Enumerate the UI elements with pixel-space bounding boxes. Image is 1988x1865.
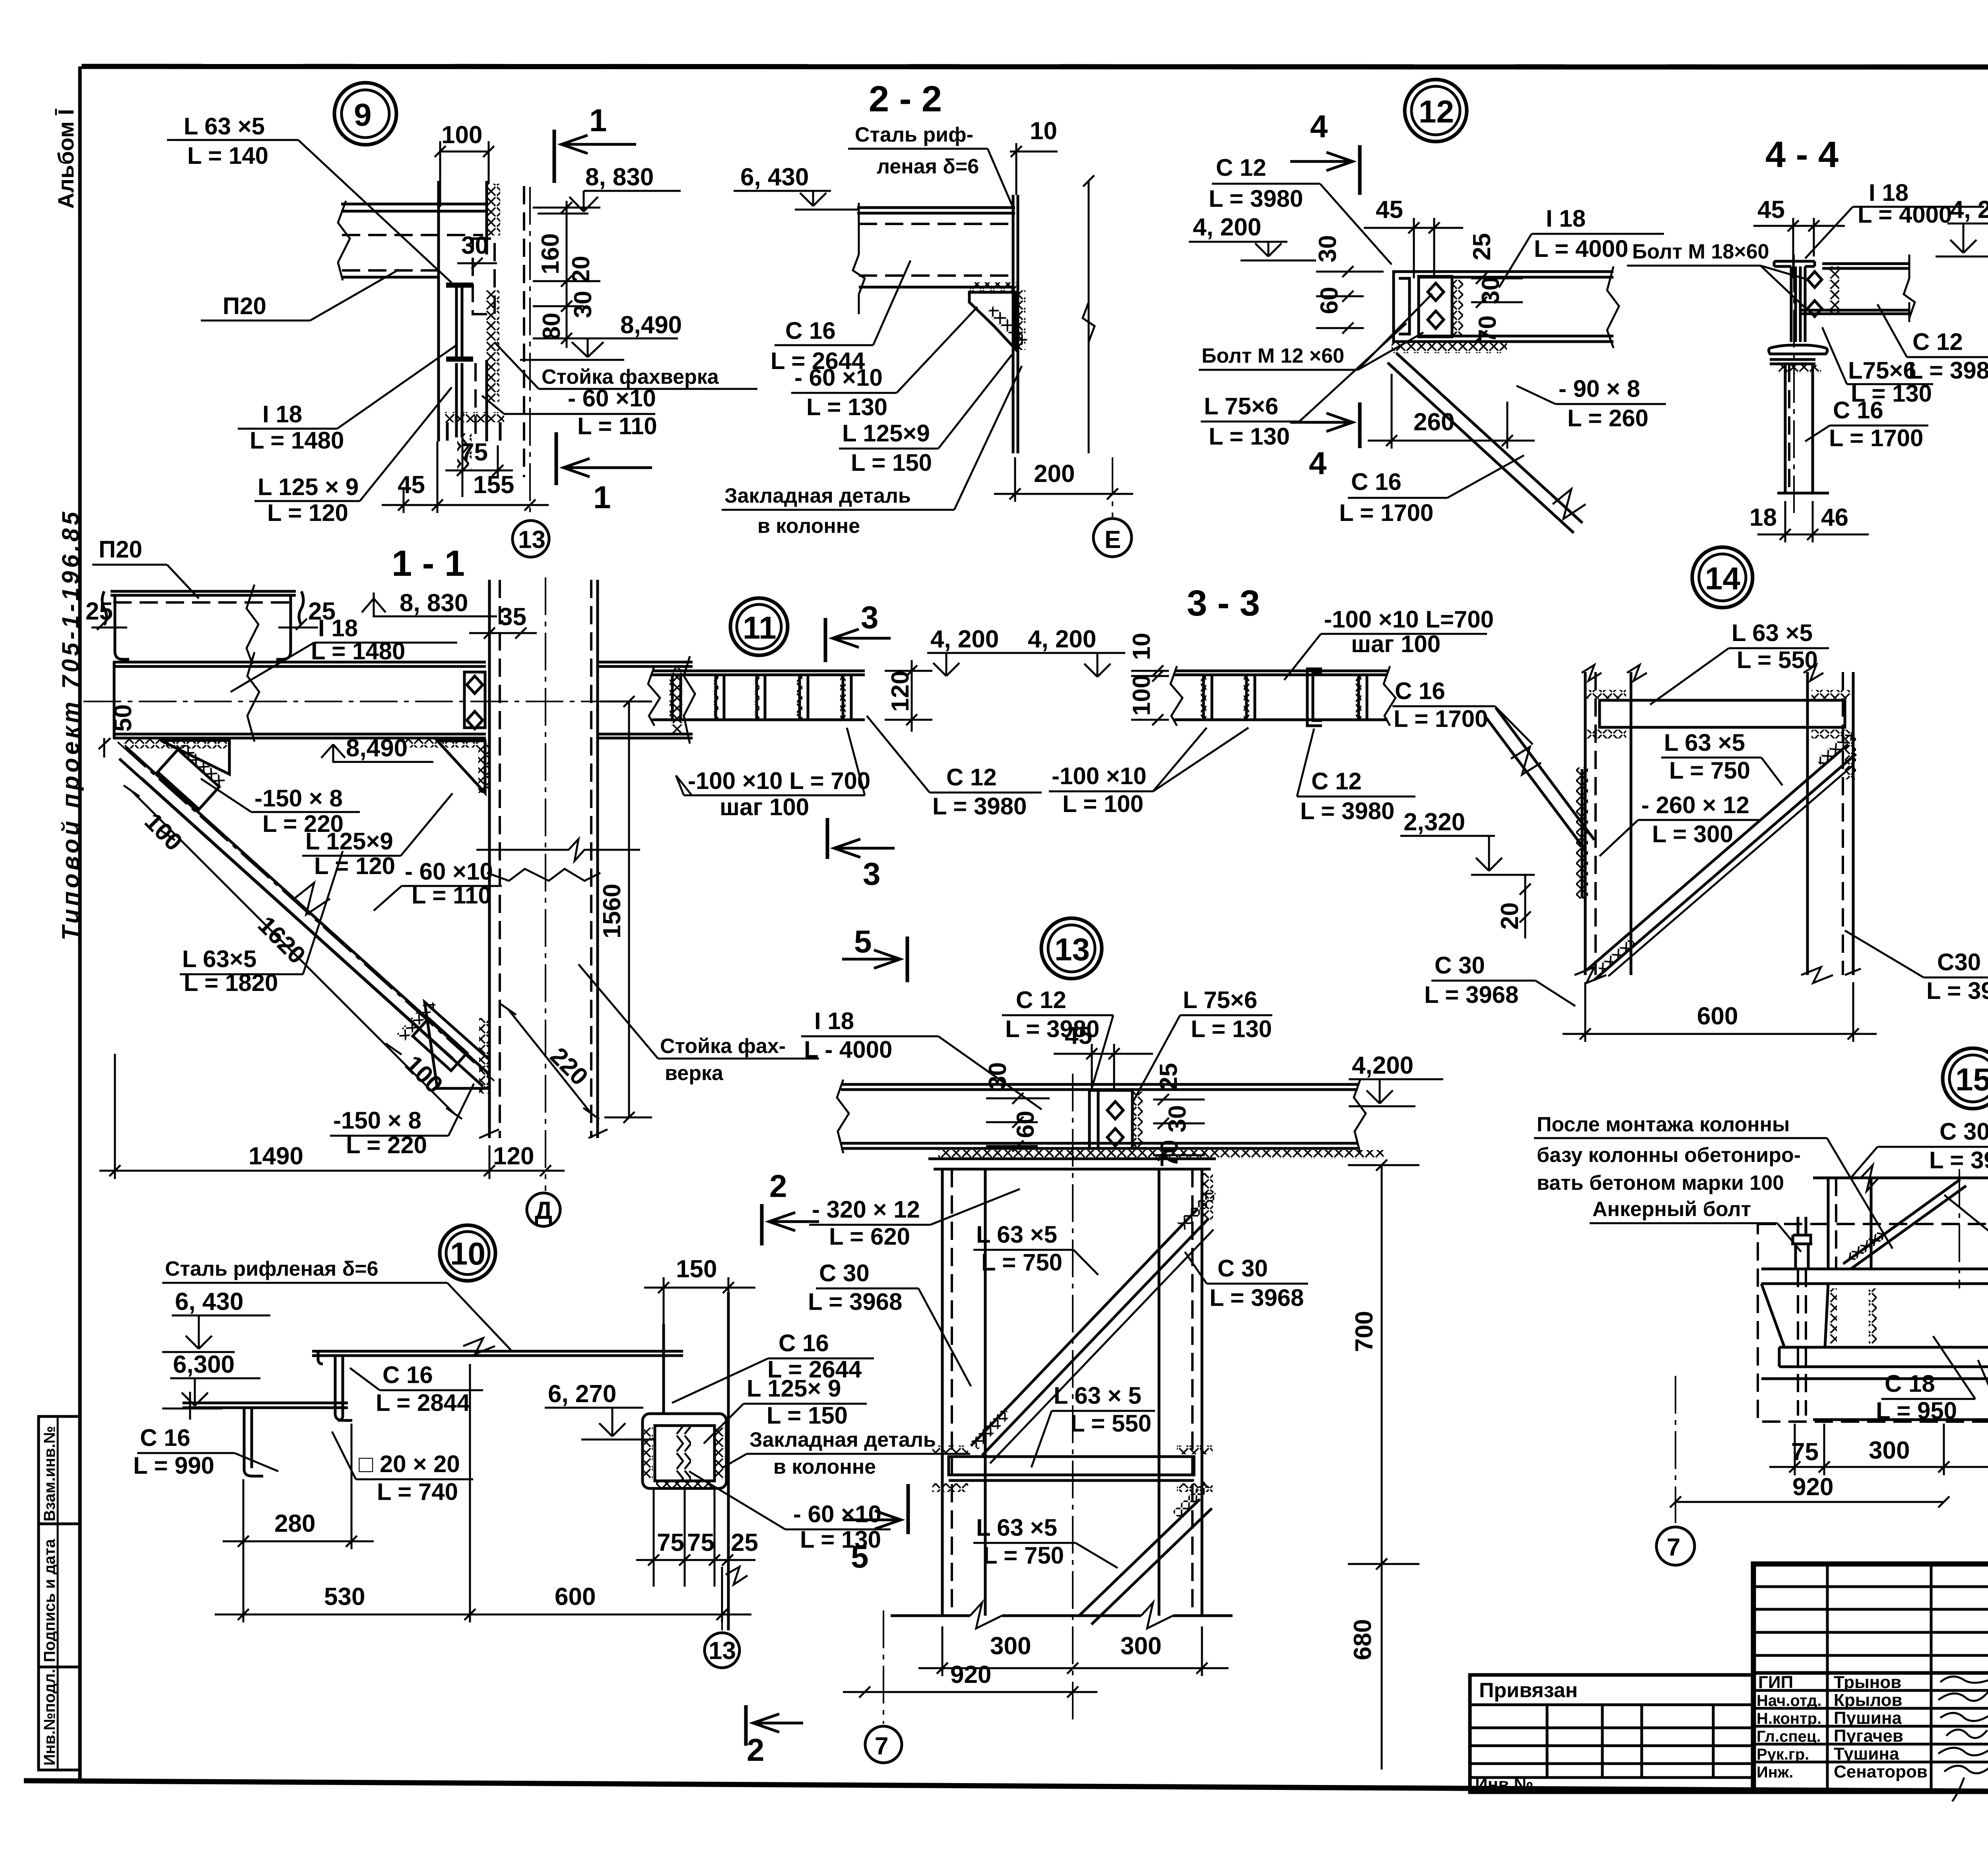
beam P20 bottom — [341, 276, 439, 279]
svg-text:4: 4 — [1310, 109, 1328, 144]
svg-text:L = 990: L = 990 — [133, 1452, 214, 1479]
mid horizontal bar L63x5 L=550 — [949, 1457, 1194, 1475]
svg-text:С 30: С 30 — [1217, 1255, 1268, 1282]
svg-text:С30: С30 — [1937, 949, 1981, 975]
column top plate -320x12 — [928, 1159, 1216, 1169]
svg-text:530: 530 — [324, 1583, 365, 1611]
svg-text:6, 430: 6, 430 — [175, 1288, 243, 1315]
svg-text:Сенаторов: Сенаторов — [1834, 1762, 1928, 1781]
lower stub verticals — [455, 363, 458, 437]
node circle 11 — [730, 598, 788, 655]
svg-text:6,300: 6,300 — [173, 1351, 235, 1378]
svg-text:L = 130: L = 130 — [1209, 423, 1290, 450]
svg-text:L = 2844: L = 2844 — [376, 1389, 470, 1416]
node circle 9 — [334, 83, 396, 145]
svg-text:120: 120 — [887, 671, 914, 712]
svg-text:680: 680 — [1349, 1619, 1376, 1660]
svg-text:7: 7 — [875, 1733, 888, 1760]
node circle 12 — [1405, 80, 1467, 142]
svg-text:L = 4000: L = 4000 — [1858, 201, 1952, 228]
svg-text:300: 300 — [1869, 1437, 1910, 1464]
svg-text:Нач.отд.: Нач.отд. — [1757, 1692, 1821, 1710]
section mark 4 bottom — [1358, 402, 1362, 448]
svg-text:Закладная деталь: Закладная деталь — [749, 1428, 936, 1451]
beam breaks — [247, 652, 259, 742]
svg-text:30: 30 — [461, 232, 489, 259]
top gusset bar — [1600, 700, 1845, 727]
svg-text:L 125 × 9: L 125 × 9 — [258, 474, 359, 500]
svg-text:8, 830: 8, 830 — [400, 589, 468, 617]
svg-text:Инж.: Инж. — [1757, 1764, 1793, 1781]
upper C16 channel — [335, 1356, 352, 1420]
svg-text:4, 200: 4, 200 — [1028, 626, 1096, 653]
column face lines — [662, 1324, 665, 1414]
svg-text:Болт М 12 ×60: Болт М 12 ×60 — [1202, 344, 1344, 367]
svg-text:в колонне: в колонне — [757, 515, 860, 538]
svg-text:100: 100 — [1128, 675, 1155, 716]
svg-text:-150 × 8: -150 × 8 — [254, 785, 343, 812]
beam I18 — [841, 1084, 1358, 1090]
top gusset plate — [161, 740, 229, 774]
weld under beam — [1392, 343, 1507, 353]
P20 channel plan — [111, 591, 296, 595]
svg-text:Привязан: Привязан — [1479, 1679, 1578, 1702]
svg-text:С 16: С 16 — [140, 1424, 190, 1451]
connection plate — [1089, 1090, 1132, 1148]
svg-text:П20: П20 — [223, 293, 266, 319]
svg-text:80: 80 — [538, 313, 565, 340]
svg-text:12: 12 — [1419, 94, 1454, 129]
svg-text:150: 150 — [676, 1255, 717, 1283]
column hidden lines — [499, 580, 501, 1138]
svg-text:L = 4000: L = 4000 — [1534, 235, 1628, 262]
column flanges — [941, 1169, 944, 1616]
left break — [648, 666, 660, 726]
svg-text:L = 750: L = 750 — [981, 1249, 1062, 1276]
weld on right column face upper — [1845, 732, 1856, 779]
grid circle E — [1112, 457, 1113, 517]
stiffener pairs — [670, 676, 851, 719]
gusset bracket dashed — [473, 239, 495, 314]
svg-text:С 30: С 30 — [1939, 1118, 1988, 1145]
svg-text:L 75×6: L 75×6 — [1204, 393, 1278, 420]
svg-text:-150 × 8: -150 × 8 — [333, 1107, 421, 1134]
deck plate — [857, 208, 1015, 213]
svg-text:L = 3968: L = 3968 — [808, 1288, 902, 1315]
column top line — [1813, 1177, 1988, 1179]
svg-text:700: 700 — [1351, 1311, 1378, 1352]
main diagonal L63x5 — [1586, 744, 1848, 970]
svg-text:С 12: С 12 — [1912, 328, 1963, 355]
node circle 15 — [1943, 1048, 1988, 1109]
svg-text:L = 1700: L = 1700 — [1339, 499, 1433, 526]
svg-text:L = 3980: L = 3980 — [1209, 185, 1303, 212]
svg-text:75: 75 — [687, 1529, 714, 1556]
column bottom breaks — [1574, 967, 1861, 983]
svg-text:С 30: С 30 — [819, 1260, 870, 1286]
svg-text:L = 260: L = 260 — [1567, 405, 1648, 431]
svg-text:100: 100 — [441, 121, 482, 149]
section mark 1 bottom — [555, 432, 558, 485]
svg-text:25: 25 — [85, 598, 113, 625]
svg-text:L = 950: L = 950 — [1876, 1397, 1957, 1424]
svg-text:200: 200 — [1034, 460, 1075, 488]
svg-text:I 18: I 18 — [262, 401, 302, 427]
svg-text:- 260 × 12: - 260 × 12 — [1641, 792, 1749, 818]
svg-text:Сталь рифленая δ=6: Сталь рифленая δ=6 — [165, 1257, 379, 1280]
C12 channel end — [1394, 272, 1417, 342]
column top breaks — [1582, 665, 1823, 681]
weld strip on column top — [487, 184, 500, 235]
svg-text:160: 160 — [537, 233, 564, 274]
svg-text:После монтажа колонны: После монтажа колонны — [1537, 1113, 1790, 1136]
stiffeners — [1201, 676, 1367, 719]
column bottom ticks — [479, 1129, 608, 1138]
svg-text:155: 155 — [473, 471, 514, 499]
beam left break — [853, 203, 865, 314]
svg-text:L = 1480: L = 1480 — [250, 427, 344, 454]
svg-text:L 63 ×5: L 63 ×5 — [976, 1221, 1057, 1248]
svg-text:- 60 ×10: - 60 ×10 — [405, 858, 493, 885]
svg-text:2,320: 2,320 — [1404, 808, 1465, 836]
upper deck plate — [312, 1351, 683, 1356]
svg-text:15: 15 — [1955, 1062, 1988, 1097]
svg-text:Сталь риф-: Сталь риф- — [855, 123, 973, 146]
svg-text:С 16: С 16 — [1833, 397, 1883, 424]
bottom gusset plate — [425, 1002, 489, 1088]
svg-text:L = 140: L = 140 — [187, 142, 268, 169]
svg-text:300: 300 — [1120, 1632, 1161, 1660]
svg-text:20: 20 — [1496, 902, 1524, 930]
column left flange — [1584, 672, 1587, 975]
svg-text:Типовой проект 705-1-196.85: Типовой проект 705-1-196.85 — [57, 509, 84, 940]
svg-text:С 12: С 12 — [946, 764, 997, 791]
svg-text:600: 600 — [1697, 1002, 1738, 1030]
incoming C16 brace — [1485, 716, 1584, 849]
svg-text:5: 5 — [854, 924, 872, 959]
beam stub right of column — [598, 662, 693, 738]
svg-text:L - 4000: L - 4000 — [804, 1036, 892, 1063]
svg-text:4: 4 — [1309, 445, 1327, 481]
svg-text:L = 750: L = 750 — [983, 1542, 1064, 1569]
svg-text:25: 25 — [1468, 233, 1496, 260]
svg-text:46: 46 — [1821, 504, 1848, 531]
column centreline — [545, 577, 546, 1191]
svg-text:L 63 × 5: L 63 × 5 — [1054, 1382, 1142, 1409]
beam I18 top — [1417, 272, 1613, 277]
svg-text:50: 50 — [109, 704, 137, 732]
svg-text:П20: П20 — [99, 536, 142, 563]
section mark 5 right — [907, 1484, 910, 1534]
svg-text:45: 45 — [1065, 1022, 1092, 1049]
svg-text:6, 270: 6, 270 — [548, 1380, 616, 1408]
svg-text:Пугачев: Пугачев — [1834, 1726, 1903, 1746]
weld strip right of stub — [486, 290, 499, 402]
svg-text:Стойка фах-: Стойка фах- — [660, 1035, 786, 1058]
diagonal brace down — [1396, 353, 1582, 523]
svg-text:14: 14 — [1705, 561, 1740, 596]
svg-text:Трынов: Трынов — [1834, 1673, 1901, 1692]
grid circle D — [527, 1193, 560, 1226]
svg-text:1: 1 — [593, 480, 611, 515]
column breaks — [487, 869, 600, 881]
svg-text:280: 280 — [274, 1510, 315, 1537]
bolts — [1807, 272, 1822, 317]
svg-text:4 - 4: 4 - 4 — [1765, 134, 1839, 175]
svg-text:С 18: С 18 — [1885, 1370, 1935, 1397]
lower diagonal brace — [1079, 1499, 1200, 1616]
weld strip on column face — [1576, 767, 1588, 899]
anchor bolt left — [1791, 1217, 1812, 1269]
end plate with bolts — [464, 672, 485, 728]
svg-text:-100 ×10: -100 ×10 — [1052, 763, 1147, 789]
svg-text:Пушина: Пушина — [1834, 1708, 1902, 1728]
upper diagonal brace — [971, 1209, 1198, 1446]
signatures squiggles — [1940, 1675, 1988, 1683]
svg-text:L = 150: L = 150 — [851, 449, 932, 476]
svg-text:L = 550: L = 550 — [1070, 1410, 1151, 1437]
svg-text:Е: Е — [1105, 526, 1121, 554]
svg-text:2: 2 — [769, 1168, 787, 1204]
svg-text:С 16: С 16 — [382, 1362, 433, 1388]
I18 beam top flange — [113, 662, 486, 666]
I18 beam bottom flange — [113, 734, 486, 738]
dashed outline box — [1758, 1224, 1988, 1422]
svg-text:35: 35 — [499, 603, 526, 631]
svg-text:3: 3 — [861, 600, 879, 635]
beam P20 hidden line — [342, 234, 483, 236]
svg-text:L = 100: L = 100 — [1062, 791, 1143, 817]
svg-text:6, 430: 6, 430 — [740, 163, 809, 191]
svg-text:L 125×9: L 125×9 — [305, 828, 393, 855]
svg-text:L 125× 9: L 125× 9 — [747, 1375, 841, 1402]
brace axis — [118, 742, 494, 1081]
svg-text:Закладная деталь: Закладная деталь — [724, 484, 911, 507]
svg-text:2: 2 — [747, 1732, 765, 1768]
node circle 7 — [1675, 1376, 1676, 1523]
base top plate — [1761, 1269, 1988, 1284]
I18 stub cross-section — [446, 284, 473, 286]
svg-text:4, 200: 4, 200 — [1193, 214, 1261, 241]
svg-text:I 18: I 18 — [318, 615, 358, 641]
svg-text:Инв.№: Инв.№ — [1475, 1775, 1534, 1794]
svg-text:L = 620: L = 620 — [829, 1223, 910, 1250]
svg-text:□ 20 × 20: □ 20 × 20 — [359, 1451, 460, 1477]
node circle 7 — [865, 1726, 902, 1763]
embedded bracket — [969, 292, 1015, 349]
svg-text:I 18: I 18 — [1546, 205, 1586, 232]
svg-text:30: 30 — [1477, 277, 1505, 304]
left rows section — [1753, 1585, 1988, 1588]
beam C16 bottom — [859, 274, 1012, 277]
svg-text:8,490: 8,490 — [620, 311, 682, 339]
svg-text:L = 3980: L = 3980 — [932, 793, 1027, 820]
node circle 13 ref — [513, 521, 549, 557]
svg-text:1 - 1: 1 - 1 — [392, 543, 465, 584]
beam P20 top flange — [341, 203, 487, 206]
svg-text:L 63 ×5: L 63 ×5 — [976, 1514, 1057, 1541]
diagonal brace L63x5 — [126, 747, 489, 1074]
svg-text:1560: 1560 — [598, 884, 626, 938]
svg-text:Крылов: Крылов — [1834, 1690, 1903, 1710]
svg-text:L = 150: L = 150 — [767, 1402, 848, 1429]
beam plan bottom — [652, 719, 865, 721]
column bottom breaks — [891, 1614, 1233, 1617]
section mark 3 bottom — [826, 818, 829, 859]
privyazan box — [1470, 1675, 1753, 1792]
svg-text:шаг 100: шаг 100 — [720, 794, 809, 820]
svg-text:L = 1700: L = 1700 — [1394, 705, 1488, 732]
svg-text:Альбом Ī: Альбом Ī — [53, 109, 78, 209]
svg-text:1490: 1490 — [248, 1142, 303, 1170]
lower deck plate — [182, 1403, 348, 1408]
svg-text:30: 30 — [569, 291, 597, 318]
column centre line — [529, 187, 531, 517]
svg-text:920: 920 — [950, 1661, 991, 1688]
node circle 13 — [1041, 918, 1102, 979]
svg-text:L 63 ×5: L 63 ×5 — [1664, 729, 1745, 756]
svg-text:С 16: С 16 — [785, 317, 836, 344]
svg-text:300: 300 — [990, 1632, 1031, 1660]
column hidden flange dashed — [523, 186, 525, 477]
svg-text:С 12: С 12 — [1016, 987, 1066, 1013]
diagonal brace — [1843, 1179, 1960, 1264]
C12 end channel — [1307, 669, 1322, 726]
svg-text:базу колонны обетониро-: базу колонны обетониро- — [1537, 1144, 1801, 1167]
margin stamp boxes — [39, 1416, 80, 1770]
svg-text:30: 30 — [1314, 235, 1342, 262]
svg-text:С 16: С 16 — [1395, 678, 1445, 704]
svg-text:Д: Д — [535, 1197, 552, 1224]
column web — [1791, 266, 1805, 342]
break in P20 — [247, 585, 258, 664]
column I top flange — [1774, 261, 1815, 266]
leader to angle — [298, 140, 452, 283]
svg-text:-100 ×10 L = 700: -100 ×10 L = 700 — [688, 767, 870, 794]
svg-text:60: 60 — [1316, 287, 1343, 314]
svg-text:4, 200: 4, 200 — [930, 626, 999, 653]
weld row under stub — [445, 412, 504, 422]
svg-text:3 - 3: 3 - 3 — [1187, 583, 1260, 624]
brace break — [294, 883, 330, 915]
svg-text:L 63 ×5: L 63 ×5 — [184, 113, 265, 140]
column post inner flange — [485, 181, 488, 254]
svg-text:L75×6: L75×6 — [1848, 357, 1916, 384]
svg-text:- 320 × 12: - 320 × 12 — [812, 1196, 920, 1223]
svg-text:4, 200: 4, 200 — [1950, 196, 1988, 223]
svg-text:L 125×9: L 125×9 — [842, 420, 930, 447]
svg-text:8,490: 8,490 — [346, 734, 408, 762]
diag dim chain — [132, 791, 454, 1113]
svg-text:L = 3980: L = 3980 — [1908, 357, 1988, 384]
beam plan top — [652, 671, 865, 675]
svg-text:Рук.гр.: Рук.гр. — [1757, 1746, 1809, 1763]
svg-text:L = 130: L = 130 — [806, 394, 887, 420]
G_MARGIN — [39, 109, 84, 1770]
weld under beam — [938, 1150, 1384, 1159]
svg-text:С 12: С 12 — [1216, 154, 1266, 181]
weld strip right column top — [1202, 1173, 1213, 1221]
column right flange — [1806, 672, 1809, 975]
svg-text:3: 3 — [863, 856, 881, 892]
svg-text:600: 600 — [555, 1583, 596, 1611]
svg-text:ГИП: ГИП — [1758, 1673, 1793, 1692]
svg-text:L 75×6: L 75×6 — [1183, 987, 1257, 1013]
svg-text:25: 25 — [731, 1529, 758, 1556]
svg-text:Взам.инв.№: Взам.инв.№ — [41, 1426, 58, 1521]
gusset trapezoids — [1761, 1284, 1828, 1347]
section mark 2 bottom — [744, 1705, 748, 1746]
outer box — [1753, 1564, 1988, 1791]
sheet left border — [78, 66, 82, 1783]
svg-text:8, 830: 8, 830 — [585, 163, 654, 191]
svg-text:10: 10 — [1030, 117, 1057, 145]
svg-text:L = 3968: L = 3968 — [1209, 1284, 1304, 1311]
svg-text:10: 10 — [1128, 633, 1155, 660]
svg-text:верка: верка — [665, 1062, 724, 1085]
svg-text:45: 45 — [1376, 196, 1403, 223]
svg-text:10: 10 — [450, 1236, 485, 1271]
svg-text:L = 3968: L = 3968 — [1424, 981, 1518, 1008]
svg-text:С 12: С 12 — [1311, 768, 1362, 795]
column flange left — [488, 580, 491, 1138]
svg-text:2 - 2: 2 - 2 — [869, 79, 942, 119]
beam right break — [1607, 266, 1619, 348]
svg-text:13: 13 — [518, 526, 546, 554]
svg-text:L = 550: L = 550 — [1737, 647, 1818, 673]
beam axis — [83, 701, 652, 702]
svg-text:1: 1 — [589, 103, 607, 138]
node circle 13 bottom — [721, 1567, 723, 1630]
svg-text:-100 ×10 L=700: -100 ×10 L=700 — [1324, 606, 1494, 633]
svg-text:20: 20 — [567, 256, 595, 283]
svg-text:Гл.спец.: Гл.спец. — [1757, 1728, 1821, 1745]
embedded detail square — [643, 1414, 726, 1488]
beam left end — [113, 662, 116, 738]
svg-text:L = 120: L = 120 — [267, 499, 348, 526]
svg-text:11: 11 — [743, 610, 777, 645]
svg-text:Подпись и дата: Подпись и дата — [41, 1539, 58, 1662]
G_TITLEBLOCK — [1470, 1564, 1988, 1801]
svg-text:С 16: С 16 — [1351, 468, 1402, 495]
wall dim line right — [1088, 181, 1090, 453]
svg-text:260: 260 — [1413, 408, 1454, 436]
beam C16 hidden top — [859, 223, 1013, 225]
column post outer flange — [437, 181, 440, 441]
connection plate w bolts — [1419, 276, 1452, 337]
svg-text:75: 75 — [460, 439, 488, 466]
svg-text:25: 25 — [1155, 1063, 1182, 1090]
svg-text:13: 13 — [1054, 932, 1090, 967]
column bottom flange — [1769, 345, 1828, 354]
node circle 14 — [1692, 547, 1753, 608]
small bracket bottom — [447, 422, 500, 441]
svg-text:L = 110: L = 110 — [577, 413, 657, 439]
svg-text:в колонне: в колонне — [773, 1455, 876, 1478]
svg-text:- 60 ×10: - 60 ×10 — [568, 385, 656, 412]
bottom plate -480x42 — [1779, 1347, 1988, 1367]
column flange right — [596, 580, 599, 1138]
column below — [1785, 364, 1813, 493]
splice plate on brace — [158, 743, 225, 810]
svg-text:С 16: С 16 — [779, 1330, 829, 1356]
wall face line — [1013, 195, 1018, 453]
sheet top border — [82, 66, 1988, 67]
column shafts — [1828, 1178, 1988, 1269]
weld strips under plate — [1829, 1288, 1837, 1344]
beam plan — [1175, 671, 1388, 675]
svg-text:L = 130: L = 130 — [1191, 1016, 1272, 1042]
